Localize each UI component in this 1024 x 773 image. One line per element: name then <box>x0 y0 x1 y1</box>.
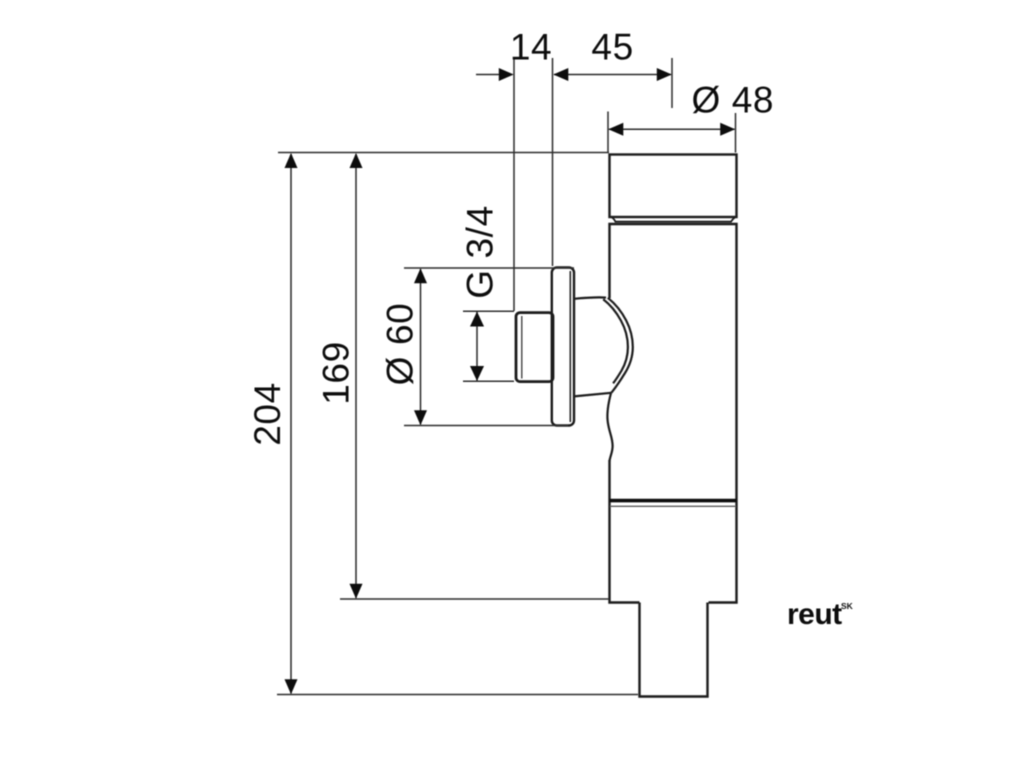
outlet pipe <box>640 603 708 697</box>
dimension 169 arrowheads <box>350 153 363 599</box>
dimension D48 arrowheads <box>608 123 735 136</box>
dimension 14 label <box>510 27 552 68</box>
dimension G3/4 line <box>476 312 478 381</box>
dimension D60 extension lines <box>404 268 574 426</box>
dimension D60 label <box>380 303 421 386</box>
dimension 14 extension lines <box>514 58 553 311</box>
dimension 204 label <box>247 382 288 446</box>
dimension D60 line <box>420 269 422 425</box>
svg-text:G 3/4: G 3/4 <box>460 205 501 299</box>
svg-text:Ø 48: Ø 48 <box>691 80 774 121</box>
dimension 45 line <box>554 74 671 76</box>
dimension D48 label <box>691 80 774 121</box>
dimension 45 arrowheads <box>553 68 672 81</box>
svg-text:Ø 60: Ø 60 <box>380 303 421 386</box>
dimension G3/4 arrowheads <box>470 312 484 382</box>
dimension 204 line <box>290 154 292 694</box>
body seam thin line <box>610 505 736 507</box>
dimension G3/4 extension lines <box>463 311 514 381</box>
body fillet below dome <box>607 393 612 461</box>
svg-text:204: 204 <box>247 382 288 446</box>
dimension D48 extension lines <box>608 112 736 153</box>
inlet dome boss <box>574 297 633 396</box>
threaded spigot G 3/4 <box>516 313 553 382</box>
extension line top (204/169 datum) <box>278 152 609 154</box>
wall flange plate <box>552 268 574 426</box>
cap neck line <box>611 217 736 222</box>
dimension 169 line <box>355 154 357 598</box>
dimension D48 line <box>609 128 735 130</box>
axis centre tick <box>671 58 673 108</box>
spigot thread relief line <box>521 316 523 379</box>
top cap of valve body <box>610 155 737 218</box>
dimension 204 arrowheads <box>285 153 298 694</box>
dimension 14 leader arrow <box>476 74 507 76</box>
svg-text:reut: reut <box>787 598 842 631</box>
dimension 45 label <box>591 27 633 68</box>
svg-text:45: 45 <box>591 27 633 68</box>
extension line 169 bottom <box>340 598 609 600</box>
body section heavy line <box>610 499 737 503</box>
main valve body <box>610 224 737 603</box>
reut logo <box>787 598 854 631</box>
dimension 169 label <box>316 341 357 405</box>
flange inner edge line <box>569 271 571 422</box>
dimension D60 arrowheads <box>414 268 427 425</box>
svg-text:SK: SK <box>841 601 854 611</box>
extension line 204 bottom <box>277 694 638 696</box>
svg-text:14: 14 <box>510 27 552 68</box>
svg-text:169: 169 <box>316 341 357 405</box>
dimension G3/4 label <box>460 205 501 299</box>
